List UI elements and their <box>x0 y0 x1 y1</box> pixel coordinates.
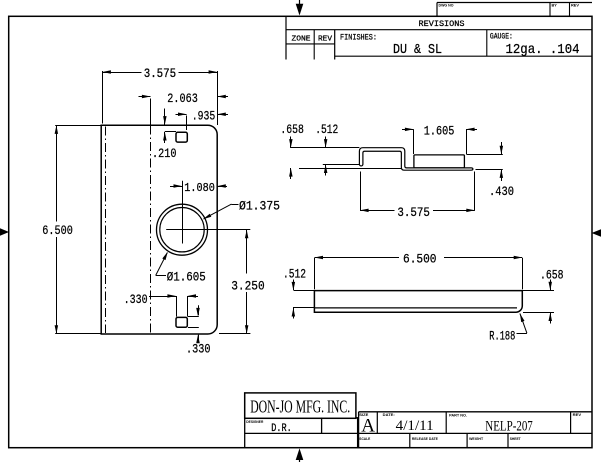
svg-text:3.575: 3.575 <box>144 66 177 81</box>
svg-text:RELEASE DATE: RELEASE DATE <box>412 437 438 441</box>
svg-text:NELP-207: NELP-207 <box>485 418 533 434</box>
svg-text:1.080: 1.080 <box>184 181 215 195</box>
svg-text:3.250: 3.250 <box>231 278 265 293</box>
svg-text:DON-JO MFG. INC.: DON-JO MFG. INC. <box>250 396 350 416</box>
svg-text:A: A <box>361 415 375 436</box>
svg-text:ZONE: ZONE <box>292 36 312 44</box>
svg-text:DATE:: DATE: <box>383 412 395 417</box>
svg-text:DESIGNER: DESIGNER <box>246 419 263 424</box>
svg-text:1.605: 1.605 <box>424 125 455 139</box>
svg-text:WEIGHT: WEIGHT <box>469 437 484 441</box>
svg-text:REV: REV <box>571 4 579 8</box>
svg-text:6.500: 6.500 <box>403 252 437 267</box>
svg-text:.330: .330 <box>124 292 148 307</box>
svg-text:.512: .512 <box>315 123 338 137</box>
svg-text:REVISIONS: REVISIONS <box>419 20 465 29</box>
svg-text:.210: .210 <box>152 146 177 161</box>
svg-text:DU & SL: DU & SL <box>393 42 442 58</box>
svg-text:.658: .658 <box>280 123 304 137</box>
svg-text:6.500: 6.500 <box>42 223 73 238</box>
svg-text:.935: .935 <box>192 109 216 124</box>
svg-text:.512: .512 <box>283 267 306 281</box>
svg-text:.658: .658 <box>540 269 564 283</box>
svg-text:SHEET: SHEET <box>510 437 522 441</box>
svg-text:Ø1.605: Ø1.605 <box>167 269 206 284</box>
svg-text:.430: .430 <box>489 185 514 199</box>
svg-text:12ga. .104: 12ga. .104 <box>506 43 580 58</box>
svg-text:Ø1.375: Ø1.375 <box>239 199 280 214</box>
svg-text:REV: REV <box>318 36 333 44</box>
svg-text:4/1/11: 4/1/11 <box>396 418 434 434</box>
svg-text:R.188: R.188 <box>489 330 515 344</box>
svg-text:REV: REV <box>573 412 582 417</box>
svg-text:DWG NO: DWG NO <box>439 4 454 8</box>
svg-text:GAUGE:: GAUGE: <box>490 34 513 42</box>
svg-text:2.063: 2.063 <box>167 91 198 106</box>
svg-text:.330: .330 <box>186 342 211 357</box>
svg-text:BY: BY <box>552 4 558 8</box>
svg-text:SCALE: SCALE <box>359 437 370 441</box>
svg-text:PART NO.: PART NO. <box>449 412 467 417</box>
svg-text:D.R.: D.R. <box>271 423 292 435</box>
svg-text:3.575: 3.575 <box>397 205 430 220</box>
svg-text:FINISHES:: FINISHES: <box>340 34 377 42</box>
